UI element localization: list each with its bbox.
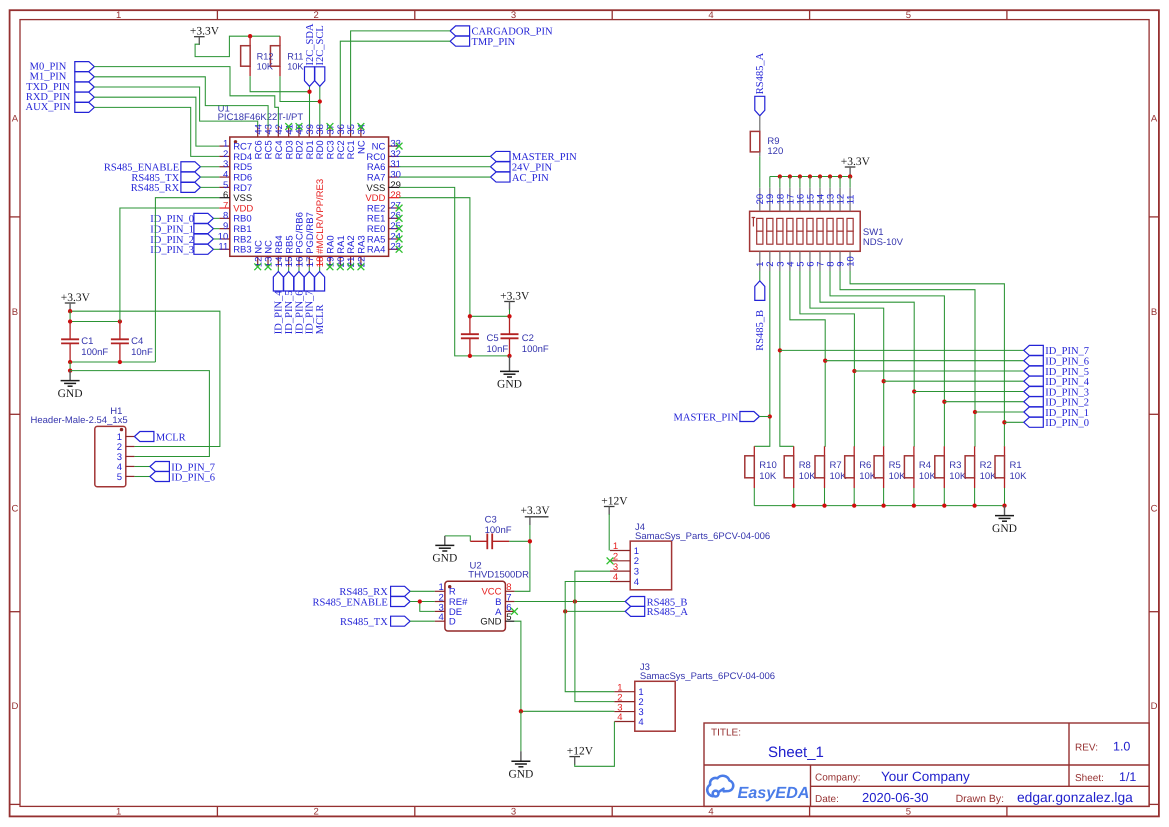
net flag MASTER_PIN (right) [740,412,760,422]
junction [881,503,885,507]
net flag AC_PIN [491,172,511,182]
net flag ID_PIN_6 (below U1) [298,267,300,272]
net flag RS485_A (top) [755,96,765,116]
svg-text:AUX_PIN: AUX_PIN [26,102,71,113]
wire [200,166,219,168]
svg-text:REV:: REV: [1075,743,1098,754]
wire [195,36,280,56]
svg-text:TMP_PIN: TMP_PIN [472,37,516,48]
svg-text:NC: NC [357,140,368,154]
svg-text:THVD1500DR: THVD1500DR [468,569,529,580]
junction [248,34,252,38]
junction [798,174,802,178]
svg-text:B: B [1151,307,1157,318]
svg-text:3: 3 [511,807,516,818]
svg-text:R11: R11 [287,51,303,61]
svg-text:RA4: RA4 [367,245,385,256]
svg-text:10K: 10K [949,471,967,482]
svg-text:RA3: RA3 [357,235,368,253]
net flag ID_PIN_1 [1024,407,1044,417]
svg-text:D: D [449,617,456,628]
wire [399,166,490,168]
resistor R8 10K [793,446,795,456]
wire U2 pin 5 GND down [514,621,521,711]
svg-text:B: B [12,307,18,318]
svg-text:1/1: 1/1 [1119,770,1136,784]
wire +3.3V to U2 VCC [514,525,530,591]
svg-text:5: 5 [906,10,911,21]
J4 pin 2 no-connect [607,557,614,564]
connector H1 Header-Male-2.54_1x5 [31,406,135,486]
ground (C1/C4) [69,371,71,381]
resistor R9 120 [759,116,761,132]
wire SW1 column [754,271,770,446]
svg-text:RS485_RX: RS485_RX [131,183,180,194]
svg-text:C2: C2 [522,333,534,344]
svg-text:R3: R3 [949,460,961,471]
svg-text:4: 4 [617,712,622,723]
svg-text:AC_PIN: AC_PIN [512,173,549,184]
junction [848,174,852,178]
wire [69,311,71,321]
wire [410,601,435,603]
wire [399,176,490,178]
junction [852,369,856,373]
wire GND rail (C1-C4 bottoms) [70,361,155,363]
svg-text:GND: GND [497,379,522,391]
wire AUX_PIN to pin 2 [94,107,219,156]
ground (J3/U2) [520,751,522,761]
svg-text:RS485_A: RS485_A [755,52,766,94]
junction [778,174,782,178]
junction [519,709,523,713]
svg-text:+3.3V: +3.3V [500,290,530,302]
wire +3.3V rail (C5-C2 tops) [470,309,510,316]
wire +3.3V rail (C1-C4 tops) [70,321,120,323]
svg-text:ID_PIN_0: ID_PIN_0 [1045,418,1089,429]
junction [318,99,322,103]
wire RE#-DE tie [420,602,435,612]
svg-text:EasyEDA: EasyEDA [738,784,810,802]
wire GND rail (C5-C2 bottoms) [470,355,510,357]
wire I2C_SDA net [250,76,309,92]
svg-text:D: D [1151,701,1158,712]
net flag ID_PIN_7 (below U1) [308,267,310,272]
svg-text:120: 120 [767,146,783,157]
svg-text:Sheet:: Sheet: [1075,773,1104,784]
svg-text:4: 4 [708,10,713,21]
junction [507,314,511,318]
resistor R3 10K [943,446,945,456]
svg-text:MCLR: MCLR [315,304,326,334]
connector J3 SamacSys_Parts_6PCV-04-006 [614,662,775,731]
net flag ID_PIN_2 [194,234,214,244]
svg-text:R12: R12 [257,51,274,61]
net flag RS485_TX [181,172,201,182]
junction [68,319,72,323]
svg-text:TITLE:: TITLE: [711,728,741,739]
wire to ID_PIN_0 [1004,421,1023,423]
net flag RXD_PIN [75,92,95,102]
wire [200,176,219,178]
wire [69,310,71,313]
wire SW1 column [780,271,794,446]
svg-text:GND: GND [480,617,501,628]
svg-text:GND: GND [992,523,1017,535]
wire pull-down GND rail [754,505,1004,507]
connector J4 SamacSys_Parts_6PCV-04-006 [610,522,770,590]
svg-text:A: A [12,114,19,125]
net flag ID_PIN_5 [1024,366,1044,376]
svg-text:2020-06-30: 2020-06-30 [862,790,929,805]
wire [779,177,781,188]
junction [848,174,852,178]
svg-text:MASTER_PIN: MASTER_PIN [674,412,739,423]
svg-text:C4: C4 [131,336,143,347]
svg-text:5: 5 [117,472,122,483]
svg-text:SamacSys_Parts_6PCV-04-006: SamacSys_Parts_6PCV-04-006 [635,531,770,542]
junction [768,414,772,418]
wire B net down to J3 pin 2 [575,602,615,702]
svg-text:R7: R7 [830,460,842,471]
resistor R4 10K [913,446,915,456]
wire SW1 column [850,271,1004,446]
wire VDD rail to H1 pin 2 [70,311,220,446]
wire SW1 column [790,271,825,446]
junction [563,609,567,613]
junction [972,503,976,507]
net flag ID_PIN_7 [1024,345,1044,355]
wire [200,186,219,188]
net flag ID_PIN_2 [1024,397,1044,407]
capacitor C3 100nF [445,536,471,541]
svg-text:Sheet_1: Sheet_1 [768,744,824,761]
wire SW1 column [840,271,975,446]
wire [213,238,219,240]
svg-text:R4: R4 [919,460,931,471]
microcontroller U1 PIC18F46K22T-I/PT [218,104,401,268]
svg-text:+3.3V: +3.3V [841,156,871,168]
junction [973,410,977,414]
net flag M0_PIN [75,62,95,72]
svg-text:RS485_A: RS485_A [647,607,689,618]
net flag MCLR (below U1) [319,267,321,272]
junction [942,503,946,507]
junction [882,379,886,383]
svg-text:4: 4 [708,807,713,818]
wire GND rail to H1 pin 3 [70,371,209,457]
net flag CARGADOR_PIN [450,26,470,36]
net flag ID_PIN_3 [1024,387,1044,397]
svg-text:R5: R5 [889,460,901,471]
wire SW1 column [830,271,944,446]
svg-text:100nF: 100nF [522,344,549,355]
svg-text:D: D [11,701,18,712]
net flag ID_PIN_3 [194,244,214,254]
junction [788,174,792,178]
svg-text:Drawn By:: Drawn By: [956,793,1004,805]
svg-text:4: 4 [439,612,444,623]
net flag ID_PIN_4 (below U1) [277,267,279,272]
svg-text:edgar.gonzalez.lga: edgar.gonzalez.lga [1017,790,1133,805]
resistor R5 10K [883,446,885,456]
wire SW1 column [820,271,914,446]
junction [808,174,812,178]
svg-text:R6: R6 [859,460,871,471]
net flag MASTER_PIN [491,151,511,161]
net flag ID_PIN_1 [194,224,214,234]
wire [319,86,321,126]
resistor R11 10K [279,36,281,46]
svg-text:10K: 10K [287,62,304,72]
net flag RS485_ENABLE (U2 pin 2) [391,597,411,607]
wire [213,228,219,230]
svg-text:R1: R1 [1010,460,1022,471]
wire SW1 column [810,271,884,446]
junction [818,174,822,178]
wire [819,177,821,188]
resistor R7 10K [824,446,826,456]
wire to ID_PIN_2 [944,401,1023,403]
wire +3.3V rail over SW1 [770,175,850,177]
net flag M1_PIN [75,72,95,82]
junction [468,314,472,318]
wire M1_PIN to pin 43 [94,77,268,127]
wire I2C_SCL net [280,76,320,101]
svg-text:SamacSys_Parts_6PCV-04-006: SamacSys_Parts_6PCV-04-006 [640,671,775,682]
junction [418,599,422,603]
svg-text:RS485_ENABLE: RS485_ENABLE [313,597,388,608]
svg-text:4: 4 [638,717,643,728]
junction [792,503,796,507]
junction [778,348,782,352]
wire [799,177,801,188]
resistor R12 10K [249,36,251,46]
svg-text:1.0: 1.0 [1113,740,1130,754]
junction [507,354,511,358]
wire to ID_PIN_6 [825,360,1024,362]
junction [1002,503,1006,507]
svg-text:+3.3V: +3.3V [521,505,551,517]
net flag TXD_PIN [75,82,95,92]
ground (C3) [444,536,446,546]
svg-text:MCLR: MCLR [156,432,186,443]
wire U2 pin 7 (B) to RS485_B flag [514,601,625,603]
svg-text:2: 2 [313,807,318,818]
svg-text:R10: R10 [759,460,776,471]
net flag RS485_A (right) [625,606,645,616]
net flag ID_PIN_6 (H1 pin 5) [134,476,150,478]
svg-text:GND: GND [58,388,83,400]
U1 no-connect marks [285,123,292,130]
junction [528,539,532,543]
net flag MCLR (H1 pin 1) [134,432,154,442]
net flag TMP_PIN [450,36,470,46]
wire CARGADOR_PIN to pin 35 [351,31,451,127]
wire +12V to J3 pin 4 [575,722,615,767]
net flag RS485_TX (U2 pin 4) [391,616,411,626]
svg-text:3: 3 [511,10,516,21]
svg-text:Header-Male-2.54_1x5: Header-Male-2.54_1x5 [31,415,128,426]
wire [213,248,219,250]
svg-text:11: 11 [845,195,856,205]
wire [759,416,769,418]
ground (C5/C2) [509,356,511,372]
svg-text:10K: 10K [257,62,274,72]
svg-text:+3.3V: +3.3V [190,26,220,38]
svg-text:Company:: Company: [815,773,861,784]
DIP switch SW1 NDS-10V [750,188,904,271]
ic U2 THVD1500DR [435,561,529,631]
junction [68,360,72,364]
wire [410,590,435,592]
svg-text:C: C [1151,504,1158,515]
resistor R2 10K [974,446,976,456]
wire SW1 column [800,271,854,446]
wire [839,177,841,188]
svg-text:+12V: +12V [601,495,628,507]
wire [69,362,71,371]
ground (pull-down rail) [1004,506,1006,516]
wire A net down to J3 pin 1 [565,611,614,691]
junction [828,174,832,178]
junction [307,90,311,94]
net flag 24V_PIN [491,162,511,172]
wire [849,177,851,188]
junction [838,174,842,178]
wire RXD_PIN to pin 1 [94,97,219,146]
capacitor C4 10nF [119,322,121,340]
junction [118,319,122,323]
junction [912,503,916,507]
net flag RS485_ENABLE [181,162,201,172]
wire [769,177,771,188]
wire A net up to J4 pin 4 [565,582,610,612]
EasyEDA logo [707,776,733,797]
wire [829,177,831,188]
svg-text:10K: 10K [759,471,777,482]
svg-text:Date:: Date: [815,794,839,805]
net flag RS485_B (right) [625,597,645,607]
wire to ID_PIN_4 [884,380,1024,382]
wire U1 VDD pin 28 down [399,198,470,317]
svg-text:RB3: RB3 [233,245,251,256]
wire U1 VSS pin 6 down [155,198,219,362]
resistor R6 10K [853,446,855,456]
junction [468,354,472,358]
resistor R10 10K [753,446,755,456]
svg-text:5: 5 [506,612,511,623]
capacitor C1 100nF [69,322,71,340]
svg-text:23: 23 [390,242,401,253]
svg-text:C5: C5 [487,333,499,344]
wire to ID_PIN_5 [854,370,1023,372]
svg-text:ID_PIN_3: ID_PIN_3 [150,245,194,256]
svg-text:10K: 10K [1010,471,1028,482]
svg-text:10: 10 [845,256,856,267]
wire [520,711,522,751]
svg-text:4: 4 [613,572,618,583]
svg-text:10nF: 10nF [487,344,509,355]
svg-text:10K: 10K [889,471,907,482]
title block [704,723,1149,807]
net flag I2C_SCL [315,67,325,87]
wire to ID_PIN_7 [780,349,1024,351]
svg-text:R8: R8 [799,460,811,471]
junction [1002,420,1006,424]
net flag ID_PIN_0 [1024,417,1044,427]
wire TXD_PIN to pin 44 [94,87,257,127]
junction [942,400,946,404]
net flag RS485_RX (U2 pin 1) [391,586,411,596]
svg-text:10K: 10K [799,471,817,482]
svg-text:GND: GND [508,768,533,780]
svg-text:10nF: 10nF [131,347,153,358]
junction [852,503,856,507]
capacitor C2 100nF [509,316,511,334]
svg-text:1: 1 [116,807,121,818]
svg-text:+3.3V: +3.3V [61,292,91,304]
svg-text:100nF: 100nF [485,525,512,536]
wire [789,177,791,188]
wire U1 VDD pin 7 down [120,208,219,322]
wire [399,155,490,157]
wire A net to RS485_A flag [565,610,625,612]
svg-text:+12V: +12V [567,745,594,757]
svg-text:RS485_B: RS485_B [755,310,766,351]
wire U1 VSS pin 29 to GND rail [399,187,470,356]
junction [68,309,72,313]
svg-text:C: C [11,504,18,515]
svg-text:RS485_TX: RS485_TX [340,617,388,628]
junction [823,359,827,363]
wire [309,86,311,126]
wire to ID_PIN_1 [975,411,1024,413]
wire [410,620,435,622]
net flag ID_PIN_5 (below U1) [288,267,290,272]
junction [68,368,72,372]
svg-text:ID_PIN_6: ID_PIN_6 [171,472,215,483]
wire B net up to J4 pin 3 [575,571,610,601]
net flag RS485_RX [181,182,201,192]
wire GND to J3 pin 3 [521,710,615,712]
svg-text:A: A [1151,114,1158,125]
net flag ID_PIN_4 [1024,376,1044,386]
wire TMP_PIN to pin 36 [340,41,450,126]
svg-text:C1: C1 [81,336,93,347]
net flag ID_PIN_6 [1024,356,1044,366]
net flag ID_PIN_7 (H1 pin 4) [134,466,150,468]
svg-text:100nF: 100nF [81,347,108,358]
junction [573,599,577,603]
net flag RS485_B (below SW1 pin 1) [759,271,761,281]
junction [912,389,916,393]
wire [213,217,219,219]
svg-text:Your Company: Your Company [881,769,970,784]
net flag I2C_SDA [305,67,315,87]
svg-text:4: 4 [634,577,639,588]
svg-text:10K: 10K [919,471,937,482]
resistor R1 10K [1004,446,1006,456]
svg-text:11: 11 [218,242,228,253]
junction [118,360,122,364]
wire [809,177,811,188]
wire M0_PIN to pin 42 [94,67,278,127]
net flag ID_PIN_0 [194,213,214,223]
svg-text:5: 5 [906,807,911,818]
svg-text:2: 2 [313,10,318,21]
wire +12V to J4 pin 1 [608,514,610,551]
